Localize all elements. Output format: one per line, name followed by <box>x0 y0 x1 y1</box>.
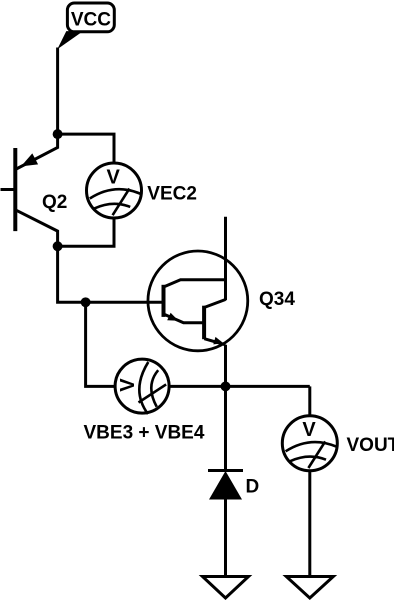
svg-text:VEC2: VEC2 <box>147 183 197 204</box>
svg-text:VOUT: VOUT <box>347 435 394 456</box>
svg-text:Q34: Q34 <box>259 289 295 310</box>
svg-text:V: V <box>117 378 139 392</box>
svg-text:D: D <box>246 477 260 498</box>
svg-text:VCC: VCC <box>71 10 111 31</box>
svg-text:Q2: Q2 <box>42 192 67 213</box>
svg-text:VBE3 + VBE4: VBE3 + VBE4 <box>84 423 205 444</box>
